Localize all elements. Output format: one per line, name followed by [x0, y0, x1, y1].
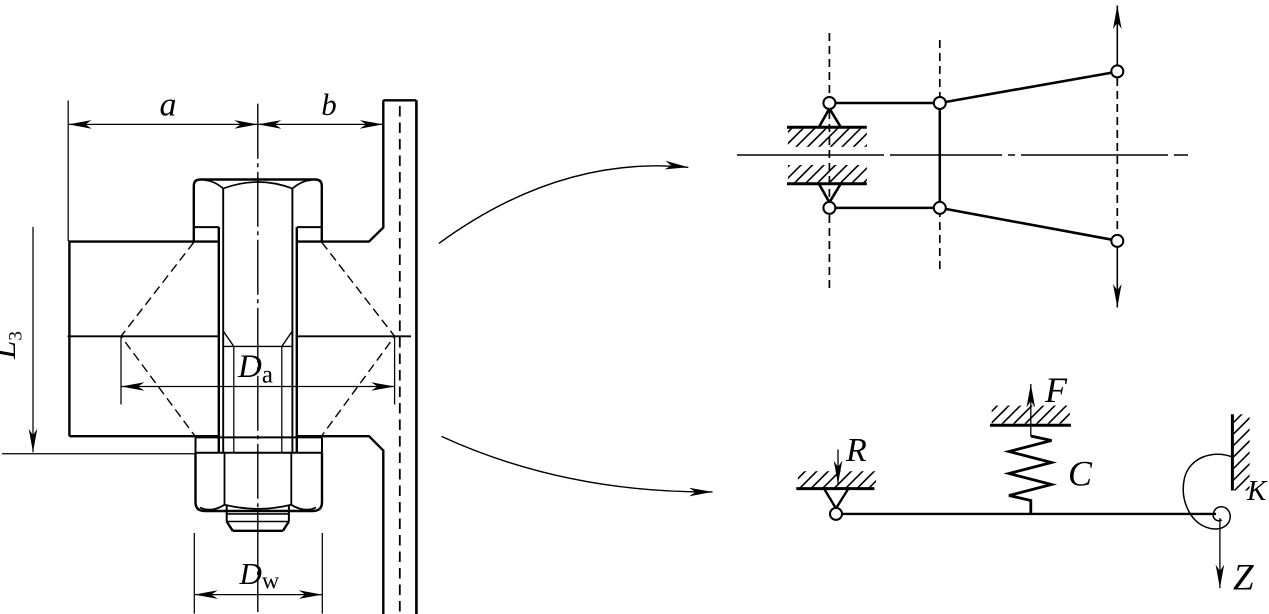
nut outline — [196, 453, 323, 511]
joint circle right-bottom — [1111, 235, 1123, 247]
lower link bar — [835, 207, 934, 210]
right wall hatch — [1234, 414, 1250, 490]
wall hidden dashed line — [399, 106, 401, 612]
pressure cone dashed lines left — [121, 242, 196, 436]
flange left edge + top edge (left of shank) — [69, 242, 218, 437]
svg-text:K: K — [1246, 475, 1268, 507]
svg-text:a: a — [160, 87, 177, 124]
right wall line — [1231, 414, 1234, 490]
joint circle lower-left — [823, 202, 835, 214]
left support hatch — [798, 471, 876, 488]
joint circle upper-left — [823, 97, 835, 109]
flange bottom edge right segment + chamfer + wall left edge lower — [297, 436, 384, 614]
joint circle lower-middle — [934, 202, 946, 214]
wall right edge — [415, 100, 418, 614]
beam — [842, 513, 1217, 515]
upper curved pointer arrow — [439, 166, 688, 244]
left support triangle — [824, 489, 848, 509]
joint circle right-top — [1111, 65, 1123, 77]
svg-text:F: F — [1044, 370, 1068, 410]
dimension line a — [68, 123, 258, 125]
washer under nut — [196, 437, 323, 452]
dimension Da extension lines — [121, 338, 395, 405]
dimension Dw extension lines — [194, 533, 322, 614]
force arrow Z — [1219, 518, 1221, 588]
left pin circle — [830, 508, 842, 520]
lower support triangle — [819, 184, 841, 203]
upper support triangle — [819, 109, 841, 128]
lower diagonal link — [945, 209, 1112, 240]
svg-text:Z: Z — [1233, 558, 1254, 599]
svg-text:b: b — [321, 87, 337, 122]
left dashed construction line — [828, 33, 830, 290]
middle dashed construction line — [939, 40, 941, 273]
dimension a extension line — [67, 101, 69, 242]
force arrow F — [1030, 384, 1032, 436]
upper link bar — [835, 102, 934, 105]
force arrow R — [837, 450, 839, 485]
joint interface mid line — [68, 335, 411, 337]
horizontal centerline — [737, 154, 1188, 156]
spring ceiling line — [990, 424, 1071, 427]
spring ceiling hatch — [992, 406, 1070, 424]
flange top edge right segment + chamfer + wall left edge upper — [297, 100, 384, 241]
spiral joint K — [1183, 454, 1232, 529]
waist (reduced shank) lines — [234, 346, 282, 452]
svg-text:R: R — [845, 432, 867, 469]
spring C — [1009, 436, 1052, 514]
bolt protruding tip — [227, 505, 289, 522]
wall top edge — [383, 99, 416, 101]
joint circle upper-middle — [934, 97, 946, 109]
dimension line Dw — [194, 594, 322, 596]
pressure cone dashed lines right — [321, 242, 395, 436]
L3 bottom extension line — [2, 453, 195, 455]
right vertical dashed segment — [1116, 78, 1118, 235]
dimension L3 line with bottom arrow — [32, 227, 34, 452]
lower ground line — [787, 182, 867, 185]
bolt head washer-face line — [194, 226, 322, 228]
nut division lines — [225, 453, 292, 505]
upper ground line — [787, 126, 867, 129]
hex head chamfer arcs — [205, 180, 312, 188]
centerline of bolt — [257, 104, 259, 612]
upper ground hatch — [788, 129, 867, 147]
left support ground line — [796, 487, 874, 490]
bolt hex head outline — [194, 180, 322, 242]
middle vertical bar — [939, 109, 942, 203]
dimension line Da — [121, 386, 395, 388]
flange bottom edge left segment — [69, 435, 218, 437]
nut bottom chamfer arcs — [200, 505, 316, 510]
lower curved pointer arrow — [441, 436, 712, 492]
bolt shank outer lines — [219, 227, 297, 453]
hex head division lines / thread lines — [223, 189, 292, 453]
lower ground hatch — [788, 165, 867, 183]
right vertical line with down arrow — [1116, 247, 1118, 308]
shank-to-waist transition — [223, 331, 292, 346]
svg-text:C: C — [1068, 454, 1093, 494]
dimension line b — [258, 123, 384, 125]
right vertical line with up arrow — [1116, 6, 1118, 66]
upper diagonal link — [945, 73, 1112, 102]
